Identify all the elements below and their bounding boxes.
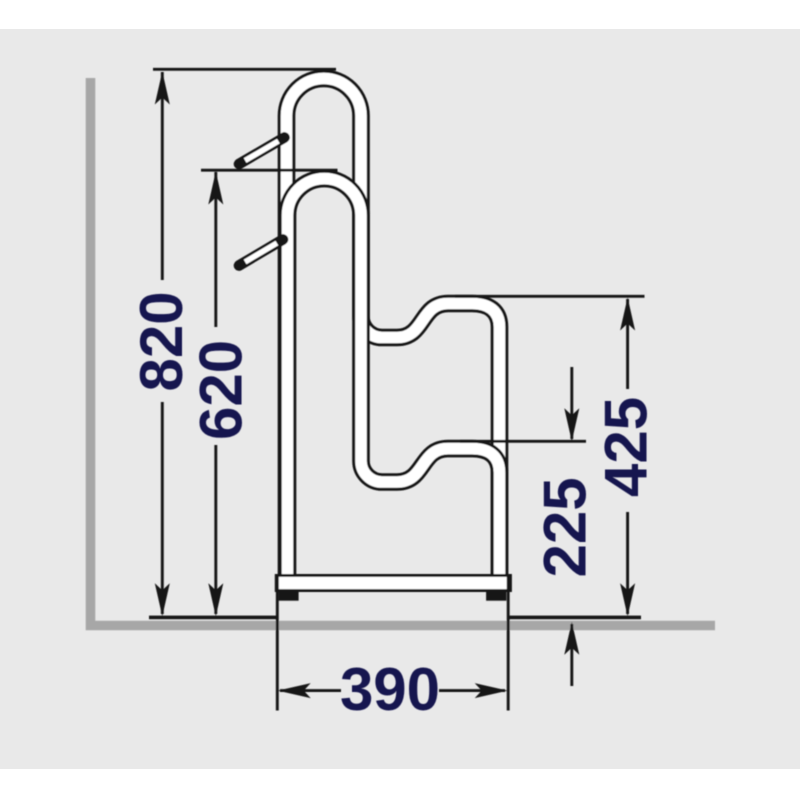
arrowhead 620 bottom bbox=[208, 583, 223, 616]
dimension line 425 bbox=[626, 299, 629, 614]
390 extension line right bbox=[507, 575, 510, 711]
arrowhead 390 left bbox=[278, 683, 311, 698]
extension line 820 top bbox=[153, 68, 336, 71]
svg-text:620: 620 bbox=[187, 340, 254, 440]
right foot bbox=[486, 592, 506, 601]
arrowhead 820 bottom bbox=[155, 583, 170, 616]
svg-text:820: 820 bbox=[128, 291, 195, 391]
lower mounting stub bbox=[239, 240, 283, 266]
svg-text:225: 225 bbox=[532, 477, 599, 577]
arrowhead 225 top bbox=[564, 408, 579, 441]
base plate bbox=[276, 575, 510, 590]
extension line 225 top bbox=[460, 440, 586, 443]
arrowhead 425 bottom bbox=[620, 583, 635, 616]
extension line 425 top bbox=[455, 295, 645, 298]
svg-text:425: 425 bbox=[592, 397, 659, 497]
arrowhead 425 top bbox=[620, 298, 635, 331]
extension line 620 top bbox=[201, 169, 338, 172]
arrowhead 225 bottom bbox=[564, 622, 579, 655]
left foot bbox=[279, 592, 299, 601]
ground extension line right bbox=[508, 616, 641, 620]
ground extension line left bbox=[149, 616, 277, 620]
tube: front hoop with lower wheel wave bbox=[288, 179, 500, 578]
dimension line 390 bbox=[280, 689, 505, 692]
tube: back hoop with upper wheel wave bbox=[287, 78, 500, 578]
upper mounting stub bbox=[239, 138, 285, 165]
wall and ground gray line bbox=[86, 78, 715, 626]
arrowhead 820 top bbox=[155, 72, 170, 105]
dimension line 225 bbox=[570, 367, 573, 686]
arrowhead 390 right bbox=[475, 683, 508, 698]
390 extension line left bbox=[276, 575, 279, 711]
dimension line 620 bbox=[214, 172, 217, 614]
dimension line 820 bbox=[161, 72, 164, 614]
arrowhead 620 top bbox=[208, 172, 223, 205]
svg-text:390: 390 bbox=[340, 656, 440, 723]
